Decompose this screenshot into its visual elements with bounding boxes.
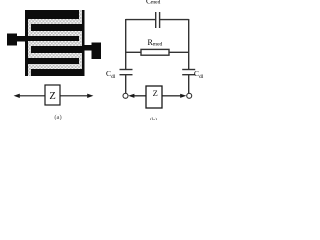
gap stipple band b5 <box>28 64 82 69</box>
right terminal pad <box>92 43 102 59</box>
svg-text:Z: Z <box>49 91 55 102</box>
gap column left 2 <box>28 46 31 53</box>
svg-text:(b): (b) <box>150 117 158 120</box>
wire arrow-left to Z <box>132 95 146 97</box>
gap column bottom-left exit <box>28 69 31 76</box>
label R_med <box>148 38 163 47</box>
svg-text:(a): (a) <box>54 114 61 120</box>
wire top right <box>160 19 189 21</box>
gap column right 2 <box>79 58 82 64</box>
wire right vertical <box>188 19 190 69</box>
right terminal bar <box>84 45 92 50</box>
equivalent circuit (b) <box>120 12 196 98</box>
gap notch top-right <box>79 10 82 19</box>
arrowhead toward left node <box>128 94 134 98</box>
capacitor C_dl right plates <box>182 69 195 71</box>
label C_dl right <box>194 69 204 80</box>
left terminal pad <box>7 34 17 46</box>
gap serpentine stipple band b1 <box>28 19 82 24</box>
svg-text:med: med <box>151 0 161 6</box>
capacitor C_dl left plates <box>120 69 133 71</box>
gap stipple band b3 <box>28 41 82 46</box>
label C_med <box>146 0 161 6</box>
svg-text:Z: Z <box>153 88 158 98</box>
wire middle left <box>126 51 142 53</box>
wire Z to arrow-right <box>162 95 182 97</box>
capacitor C_med plates <box>155 12 157 28</box>
wire left lower vertical <box>125 75 127 93</box>
gap stipple band b4 <box>28 53 82 58</box>
impedance Z box (b) <box>146 86 162 108</box>
interdigitated electrode IDE body (black square) <box>7 10 101 76</box>
svg-text:med: med <box>153 41 163 47</box>
svg-text:dl: dl <box>111 74 116 80</box>
wire top left <box>126 19 156 21</box>
wire right lower vertical <box>188 75 190 93</box>
wire middle right <box>169 51 189 53</box>
wire left vertical <box>125 19 127 69</box>
arrowhead toward right node <box>180 94 186 98</box>
terminal node left <box>123 93 128 98</box>
gap column right 1 <box>79 36 82 41</box>
label C_dl left <box>106 69 116 80</box>
svg-text:dl: dl <box>199 74 204 80</box>
resistor R_med box <box>141 49 169 55</box>
left terminal bar <box>15 36 26 42</box>
impedance Z box (a) <box>45 85 60 105</box>
gap stipple band b2 <box>28 31 82 36</box>
terminal node right <box>187 93 192 98</box>
measurement arrow under IDE <box>14 94 94 98</box>
gap column left 1 <box>28 24 31 31</box>
